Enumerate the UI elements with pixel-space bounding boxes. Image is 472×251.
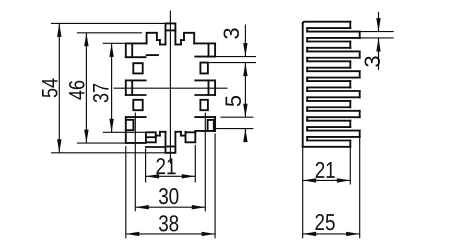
fin 4 top edge [307,50,360,52]
dimension line 21 [146,175,196,177]
bottom left edge [126,142,146,144]
bottom lower edge left of tab [146,146,166,148]
arrow 5 up [243,129,247,143]
inner rear-fin edge right 2 [208,80,210,95]
rear fin end box in left notch 2 [133,100,142,110]
fin 12 bottom edge [307,136,360,138]
rear fin end box in right notch 1 [200,63,208,74]
right notch 2 bottom [195,116,215,118]
extension line 38 right [214,134,216,239]
top right block (46-level fin end) [184,33,194,44]
slot root 5 [306,68,308,72]
fin 8 bottom edge [307,96,360,98]
fin 5 top edge [307,60,350,62]
bottom central tab outline [166,132,176,153]
top slot bottom left of tab [160,44,166,46]
extension line 54 top [51,22,166,24]
dimension line 3 fin lower tail [378,38,380,70]
rear fin box at lower left face [126,120,134,130]
arrow 54 bottom [57,139,61,153]
svg-text:54: 54 [37,78,62,98]
fin 2 top edge [307,31,360,33]
bottom slot left of tab [160,131,166,133]
svg-text:25: 25 [314,209,335,235]
dimension line 21 side [303,179,351,181]
top tab inner edge (rear tab) [166,29,176,31]
extension line 21 fins [349,148,351,185]
extension line 5 lower [215,128,253,130]
dimension line 54 [58,23,60,152]
svg-text:46: 46 [64,80,89,100]
top shelf left [157,39,160,41]
extension line 25 right [359,138,361,238]
fin 6 bottom edge [307,77,360,79]
svg-text:21: 21 [315,157,336,183]
fin 2 bottom edge [307,37,360,39]
extension line 46 top [77,32,142,34]
slot root 12 [306,137,308,141]
fin 9 end face [349,101,351,107]
extension line 38 left [125,146,127,238]
left edge face segment 1 [125,43,127,57]
fin 7 bottom edge [307,86,350,88]
fin 3 end face [349,42,351,48]
extension line 30 left [134,113,136,212]
bottom right surface [195,130,215,132]
slot root 11 [306,127,308,131]
fin 12 end face [359,131,361,137]
top central tab outline [166,23,176,44]
extension line 25 left [302,148,304,238]
fin 4 bottom edge [307,57,360,59]
extension line 3 lower (rear fin top) [208,62,256,64]
slot root 1 [306,28,308,32]
side view top edge with rounded corner [303,22,351,24]
left edge face segment 2 [125,80,127,95]
dimension line 3 upper tail [244,25,246,57]
slot root 10 [306,117,308,121]
extension line 46 bottom [77,142,135,144]
right notch 2 top [195,94,215,96]
slot root 3 [306,48,308,52]
bottom left block inner edge [146,136,156,138]
arrow 30 right [192,205,206,209]
arrow 21 side right [337,178,351,182]
top slot bottom right of tab [175,44,181,46]
fin 1 bottom edge [307,27,350,29]
left notch 2 bottom [126,116,146,118]
arrow 54 top [57,23,61,37]
arrow 30 left [135,205,149,209]
arrow 5 down [243,104,247,118]
extension line 37 top [103,42,126,44]
fin 8 end face [359,91,361,97]
bottom tab inner edge [166,146,176,148]
fin 9 top edge [307,100,350,102]
slot root 7 [306,87,308,91]
fin 13 end face [349,141,351,147]
fin 4 end face [359,51,361,57]
bottom right block top edge [186,131,196,133]
bottom shelf left [156,135,160,137]
fin 5 end face [349,61,351,67]
dimension line 38 [126,233,215,235]
vertical centerline of front view [169,11,171,164]
extension line 30 right [204,113,206,212]
svg-text:37: 37 [88,83,113,103]
extension line 3 fin top [360,31,394,33]
inner rear-fin edge left 1 [131,43,133,57]
dimension line 5 lower tail [244,129,246,141]
fin 6 end face [359,71,361,77]
extension line 21 right [194,145,196,183]
slot root 6 [306,78,308,82]
extension line 37 bottom [103,131,147,133]
horizontal centerline of front view [114,87,228,89]
extension line 3 fin bottom [360,37,394,39]
left notch 1 bottom [126,79,146,81]
bottom shelf right [181,135,186,137]
side view bottom edge [303,146,351,148]
fin 7 end face [349,81,351,87]
left edge face segment 3 [125,117,127,143]
arrow 38 left [126,232,140,236]
fin 6 top edge [307,70,360,72]
dimension line 37 [111,43,113,132]
slot root 4 [306,58,308,62]
right edge face segment 3 [214,117,216,131]
dimension line 3 lower tail [244,63,246,117]
arrow 25 right [346,232,360,236]
dimension line 30 [135,206,205,208]
arrow 21 right [182,174,196,178]
fin 1 end face [349,22,351,28]
fin 10 top edge [307,110,360,112]
fin 5 bottom edge [307,67,350,69]
arrow 3 fin down [376,18,380,32]
arrow 3 up [243,63,247,77]
fin 11 top edge [307,120,350,122]
fin 10 bottom edge [307,116,360,118]
right edge face segment 1 [214,43,216,56]
extension line 21 left [145,149,147,183]
fin 8 top edge [307,90,360,92]
right notch 1 bottom [195,79,215,81]
arrow 25 left [303,232,317,236]
fin 2 end face [359,32,361,38]
bottom step left of tab [159,132,161,136]
fin 9 bottom edge [307,106,350,108]
fin 3 top edge [307,41,350,43]
extension line 54 bottom [51,152,166,154]
dimension line 3 fin upper tail [378,12,380,32]
bottom step right of tab [180,132,182,136]
right notch 1 top [195,56,215,58]
arrow 3 down [243,43,247,57]
arrow 21 left [146,174,160,178]
top right surface (37-level) [194,42,215,44]
svg-text:38: 38 [158,210,179,236]
extension line 5 upper [221,116,254,118]
svg-text:3: 3 [219,27,244,39]
step left of tab [159,40,161,44]
rear fin edge behind top shelf [147,54,158,56]
slot root 8 [306,97,308,101]
top shelf right [181,39,184,41]
slot root 9 [306,107,308,111]
arrow 21 side left [303,178,317,182]
svg-text:5: 5 [221,95,246,107]
arrow 46 top [84,33,88,47]
left notch 1 top [126,56,146,58]
rear fin end box in right notch 2 [200,100,208,110]
arrow 37 top [109,43,113,57]
bottom right block [186,131,196,142]
left notch 2 top [126,94,146,96]
arrow 3 fin up [376,38,380,52]
rear fin end box in left notch 1 [133,63,142,73]
svg-text:21: 21 [155,153,176,179]
arrow 37 bottom [109,119,113,133]
right edge face segment 2 [214,80,216,95]
svg-text:30: 30 [158,183,179,209]
fin 13 top edge [307,140,350,142]
slot root 2 [306,38,308,42]
fin 10 end face [359,111,361,117]
svg-text:3: 3 [360,55,385,67]
fin 11 end face [349,121,351,127]
inner rear-fin edge right 1 [208,43,210,56]
dimension line 25 [303,233,360,235]
fin 3 bottom edge [307,47,350,49]
fin 7 top edge [307,80,350,82]
top left surface (37-level) [126,42,147,44]
bottom left block [146,132,156,142]
fin 12 top edge [307,130,360,132]
rear fin box at lower right face [208,120,214,131]
extension line 3 upper (notch top) [215,56,256,58]
side view left wall [302,24,304,147]
bottom slot right of tab [175,131,181,133]
fin 11 bottom edge [307,126,350,128]
arrow 46 bottom [84,130,88,144]
inner rear-fin edge left 2 [131,80,133,95]
step right of tab [180,40,182,44]
dimension line 46 [85,33,87,143]
arrow 38 right [202,232,216,236]
top left block (46-level fin end) [147,33,157,44]
